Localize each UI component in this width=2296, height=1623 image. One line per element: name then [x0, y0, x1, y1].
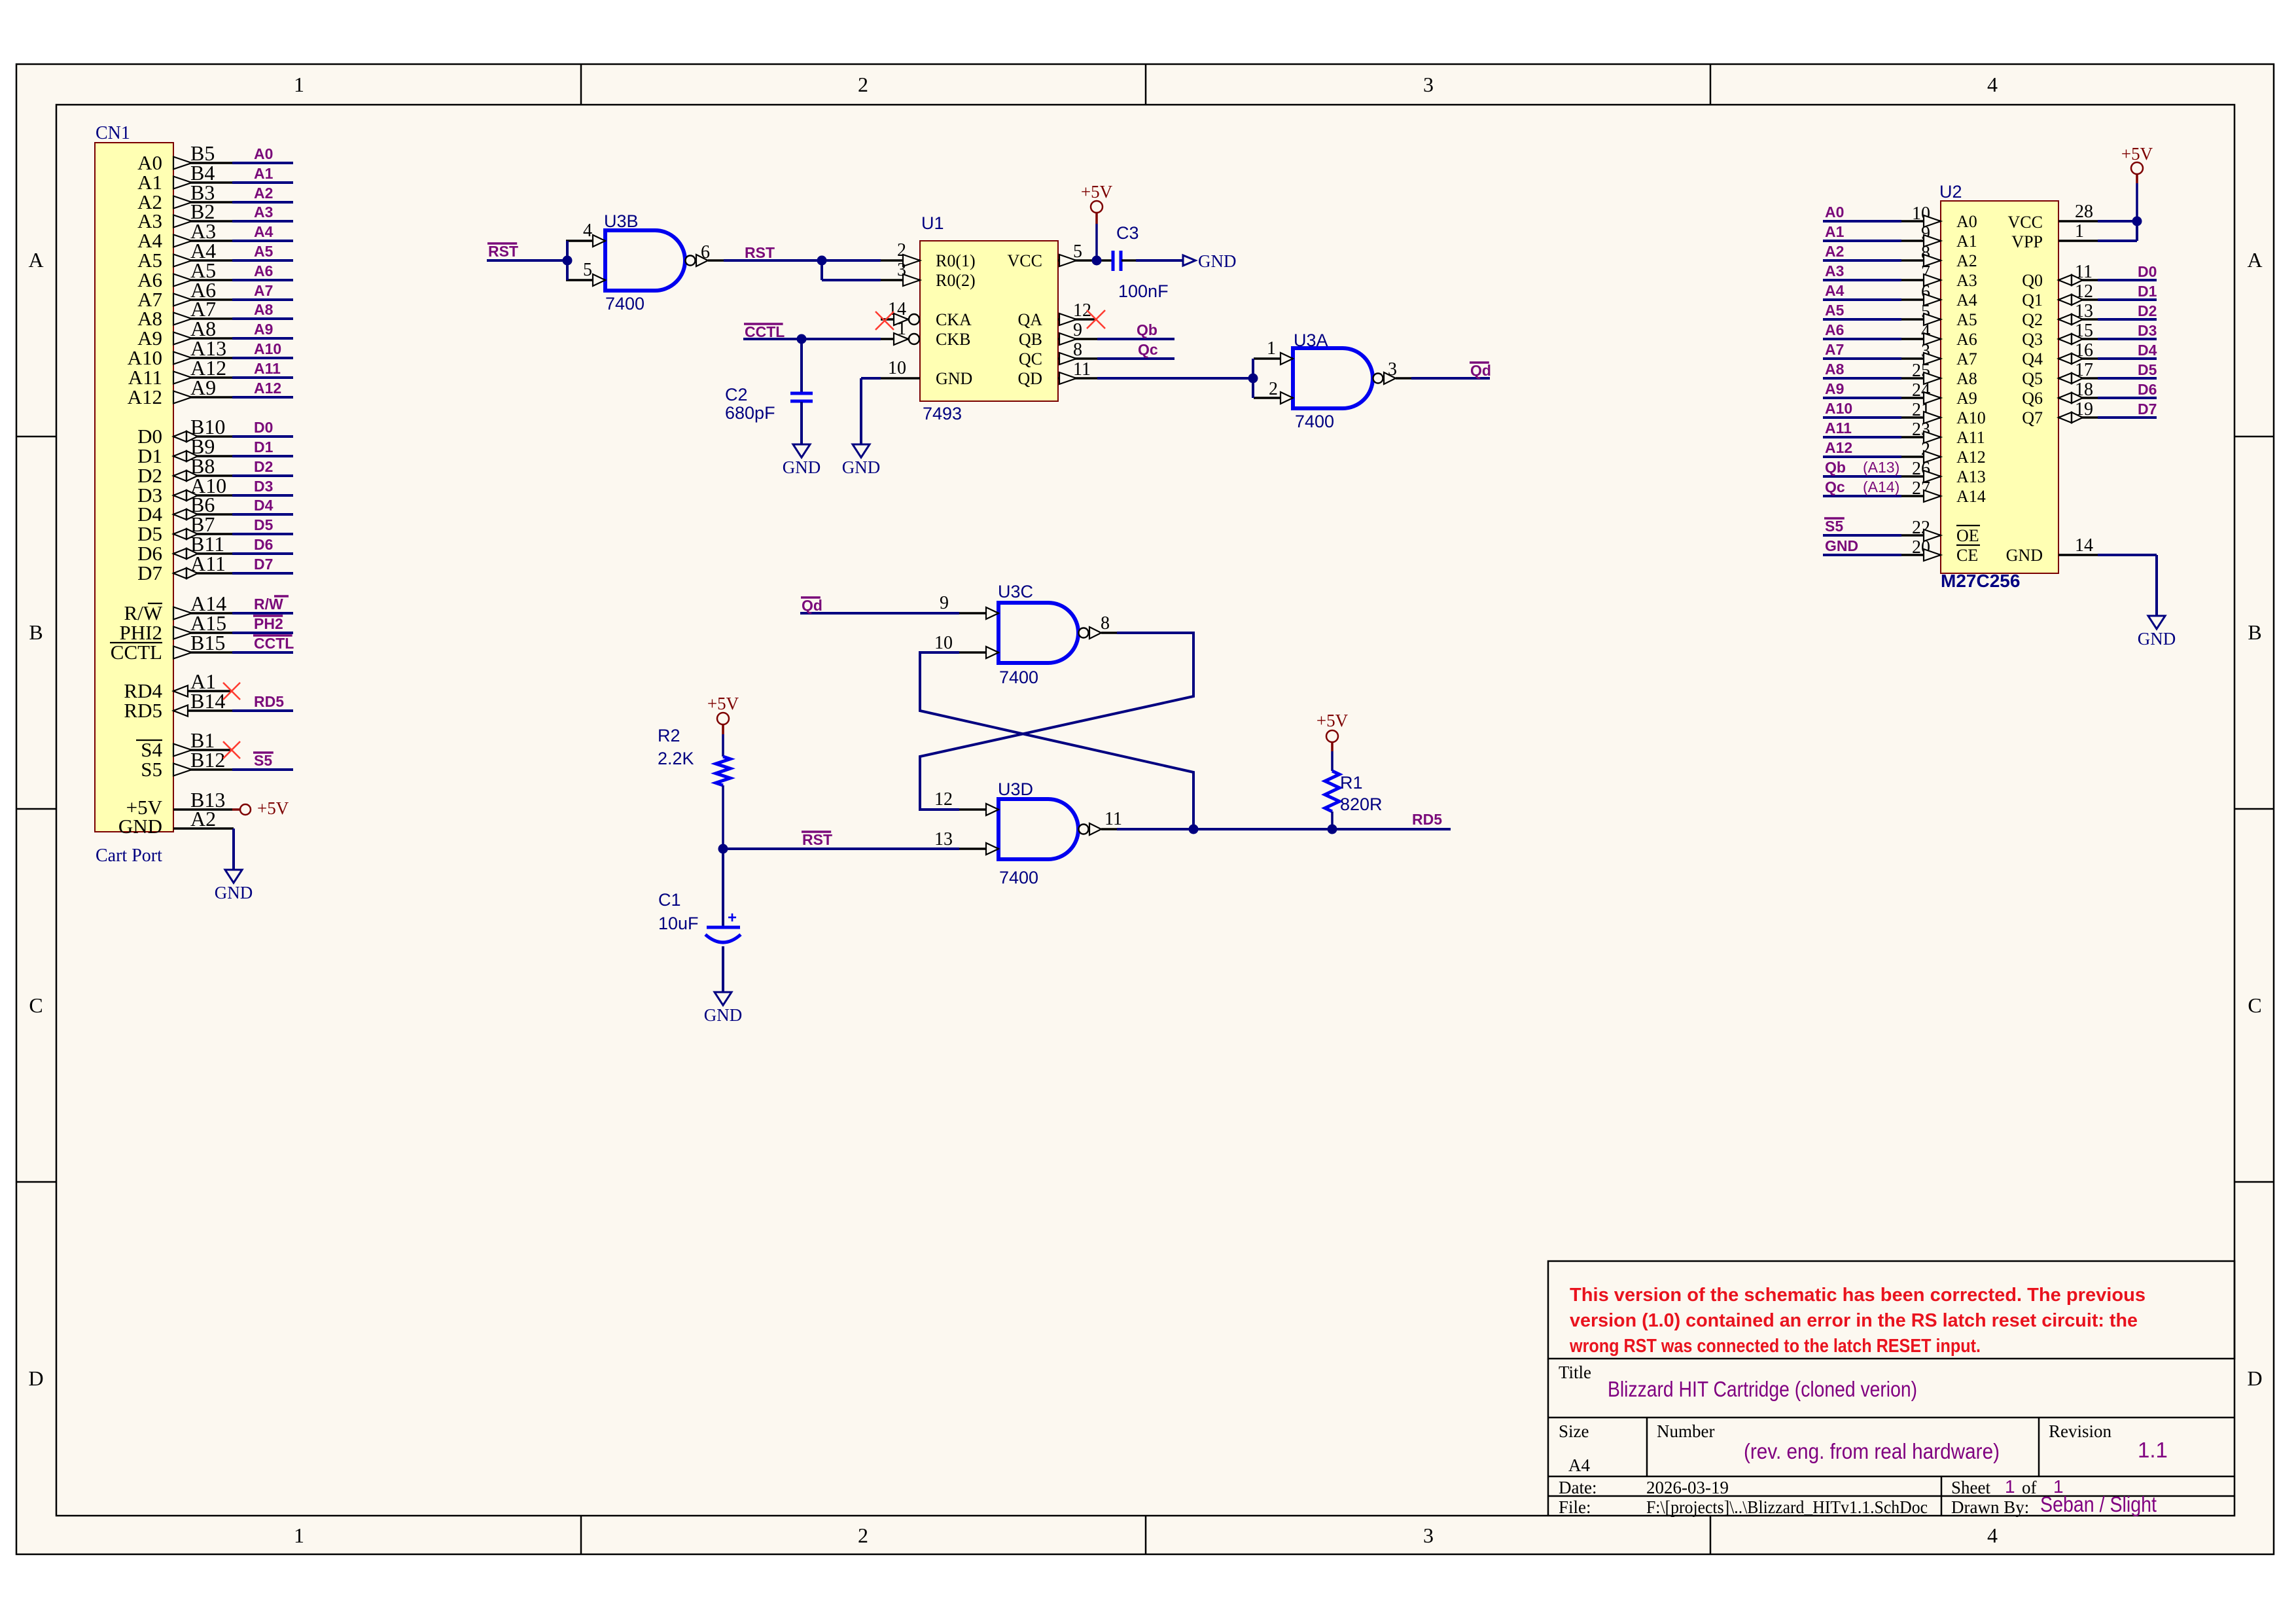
svg-text:680pF: 680pF: [725, 403, 775, 423]
svg-text:GND: GND: [704, 1005, 743, 1025]
svg-text:A5: A5: [1956, 310, 1977, 329]
svg-text:A12: A12: [1956, 448, 1986, 467]
svg-text:CKB: CKB: [936, 330, 970, 349]
svg-text:GND: GND: [215, 883, 253, 902]
svg-text:4: 4: [1987, 73, 1998, 96]
svg-text:D3: D3: [254, 478, 273, 495]
svg-text:CCTL: CCTL: [254, 635, 294, 652]
svg-text:820R: 820R: [1340, 794, 1383, 814]
svg-text:D2: D2: [2138, 302, 2157, 319]
svg-text:1: 1: [1267, 338, 1276, 359]
svg-text:CKA: CKA: [936, 310, 972, 329]
svg-text:C2: C2: [725, 385, 748, 404]
svg-text:B15: B15: [190, 631, 225, 654]
svg-text:100nF: 100nF: [1118, 281, 1169, 301]
svg-text:A4: A4: [1568, 1455, 1590, 1475]
svg-text:Q3: Q3: [2022, 330, 2043, 349]
svg-text:A9: A9: [254, 321, 273, 338]
svg-text:RD5: RD5: [1412, 811, 1442, 828]
svg-text:4: 4: [1987, 1524, 1998, 1547]
svg-text:QC: QC: [1019, 349, 1042, 368]
svg-text:RD5: RD5: [254, 693, 284, 710]
svg-text:R0(2): R0(2): [936, 271, 976, 290]
svg-text:D6: D6: [2138, 381, 2157, 398]
svg-text:RD5: RD5: [124, 699, 162, 722]
svg-text:U3B: U3B: [604, 211, 639, 231]
svg-text:A6: A6: [254, 262, 273, 279]
svg-text:File:: File:: [1559, 1497, 1591, 1517]
svg-text:+5V: +5V: [2121, 144, 2153, 164]
svg-text:VPP: VPP: [2011, 232, 2043, 251]
svg-text:GND: GND: [118, 815, 162, 838]
svg-text:CCTL: CCTL: [745, 323, 785, 340]
svg-text:6: 6: [701, 242, 710, 262]
svg-text:A11: A11: [254, 360, 281, 377]
svg-text:Q7: Q7: [2022, 408, 2043, 427]
svg-text:2: 2: [858, 73, 868, 96]
svg-text:A7: A7: [254, 282, 273, 299]
svg-text:QD: QD: [1017, 369, 1042, 388]
svg-text:Q0: Q0: [2022, 271, 2043, 290]
svg-text:A5: A5: [254, 243, 274, 260]
svg-text:8: 8: [1101, 613, 1110, 633]
svg-text:M27C256: M27C256: [1941, 571, 2020, 591]
svg-text:10: 10: [934, 633, 953, 653]
svg-text:RST: RST: [802, 831, 832, 848]
svg-text:A10: A10: [254, 340, 281, 357]
svg-text:R2: R2: [658, 726, 680, 745]
svg-text:A2: A2: [190, 807, 216, 830]
svg-text:D1: D1: [254, 438, 274, 455]
svg-text:A0: A0: [254, 145, 273, 162]
svg-text:Sheet: Sheet: [1951, 1478, 1990, 1497]
svg-text:A3: A3: [1825, 262, 1844, 279]
svg-text:Revision: Revision: [2049, 1421, 2112, 1441]
svg-text:CCTL: CCTL: [111, 641, 162, 664]
svg-text:5: 5: [583, 260, 592, 280]
svg-text:GND: GND: [2138, 629, 2176, 649]
svg-text:Date:: Date:: [1559, 1478, 1597, 1497]
svg-text:8: 8: [1073, 340, 1082, 360]
svg-text:Number: Number: [1657, 1421, 1714, 1441]
svg-text:D: D: [2247, 1366, 2262, 1390]
svg-text:GND: GND: [936, 369, 972, 388]
svg-text:A4: A4: [254, 223, 274, 240]
svg-text:3: 3: [1423, 73, 1434, 96]
svg-text:A9: A9: [190, 376, 216, 399]
svg-text:13: 13: [934, 829, 953, 849]
svg-text:7400: 7400: [999, 668, 1038, 687]
svg-text:3: 3: [1423, 1524, 1434, 1547]
svg-text:A4: A4: [1825, 282, 1845, 299]
svg-text:Qd: Qd: [1470, 362, 1491, 379]
svg-text:Qb: Qb: [1825, 459, 1846, 476]
svg-text:10uF: 10uF: [658, 914, 699, 933]
svg-text:A12: A12: [254, 380, 281, 397]
svg-text:Q2: Q2: [2022, 310, 2043, 329]
svg-text:C: C: [2248, 993, 2261, 1017]
svg-text:C: C: [29, 993, 43, 1017]
svg-text:1: 1: [294, 1524, 304, 1547]
svg-text:A6: A6: [1825, 321, 1844, 338]
svg-text:Drawn By:: Drawn By:: [1951, 1497, 2029, 1517]
svg-text:+5V: +5V: [257, 798, 289, 818]
svg-text:+: +: [728, 909, 737, 927]
svg-text:7400: 7400: [1295, 412, 1334, 431]
svg-text:11: 11: [1104, 809, 1122, 829]
svg-text:VCC: VCC: [2008, 213, 2043, 232]
svg-text:A11: A11: [1825, 419, 1852, 437]
svg-text:9: 9: [1073, 320, 1082, 340]
svg-text:of: of: [2022, 1478, 2037, 1497]
svg-text:GND: GND: [842, 457, 881, 477]
svg-text:D4: D4: [254, 497, 274, 514]
svg-text:A1: A1: [1956, 232, 1977, 251]
svg-text:Qc: Qc: [1138, 341, 1158, 358]
svg-text:Title: Title: [1559, 1363, 1591, 1382]
svg-text:5: 5: [1073, 241, 1082, 262]
svg-text:A1: A1: [254, 165, 274, 182]
svg-text:7493: 7493: [923, 404, 962, 423]
svg-text:A12: A12: [1825, 439, 1852, 456]
svg-text:A3: A3: [254, 204, 273, 221]
svg-text:D: D: [28, 1366, 43, 1390]
svg-text:OE: OE: [1956, 526, 1979, 545]
svg-text:GND: GND: [1198, 251, 1237, 271]
svg-text:C1: C1: [658, 890, 681, 910]
svg-text:D7: D7: [2138, 401, 2157, 418]
svg-text:F:\[projects]\..\Blizzard_HITv: F:\[projects]\..\Blizzard_HITv1.1.SchDoc: [1646, 1497, 1928, 1517]
svg-text:4: 4: [583, 221, 592, 241]
svg-text:A13: A13: [1956, 467, 1986, 486]
svg-text:B: B: [2248, 620, 2261, 644]
svg-text:A14: A14: [1956, 487, 1986, 506]
svg-text:U2: U2: [1939, 182, 1962, 202]
svg-text:PH2: PH2: [254, 615, 283, 632]
svg-text:14: 14: [2075, 535, 2093, 556]
svg-text:7400: 7400: [999, 868, 1038, 887]
svg-text:QB: QB: [1019, 330, 1042, 349]
svg-text:11: 11: [1073, 359, 1091, 380]
svg-text:+5V: +5V: [707, 694, 739, 713]
svg-text:S5: S5: [1825, 518, 1843, 535]
svg-text:CN1: CN1: [96, 123, 130, 143]
svg-text:A12: A12: [128, 385, 162, 408]
svg-text:QA: QA: [1017, 310, 1042, 329]
svg-text:U3A: U3A: [1294, 330, 1328, 350]
svg-text:Qd: Qd: [802, 597, 822, 614]
svg-text:(A14): (A14): [1863, 478, 1899, 495]
svg-text:D5: D5: [2138, 361, 2157, 378]
svg-text:2026-03-19: 2026-03-19: [1646, 1478, 1729, 1497]
svg-text:Q5: Q5: [2022, 369, 2043, 388]
svg-text:D1: D1: [2138, 283, 2157, 300]
svg-text:GND: GND: [783, 457, 821, 477]
svg-text:Qc: Qc: [1825, 478, 1845, 495]
svg-text:A6: A6: [1956, 330, 1977, 349]
svg-text:CE: CE: [1956, 546, 1978, 565]
svg-text:A2: A2: [254, 185, 273, 202]
svg-text:+5V: +5V: [1316, 711, 1349, 730]
svg-text:D0: D0: [2138, 263, 2157, 280]
svg-text:28: 28: [2075, 202, 2093, 222]
svg-text:B14: B14: [190, 689, 225, 713]
svg-text:D2: D2: [254, 458, 273, 475]
svg-text:A4: A4: [1956, 291, 1977, 310]
svg-text:S5: S5: [254, 752, 272, 769]
svg-text:7400: 7400: [605, 294, 645, 313]
svg-text:RST: RST: [745, 244, 775, 261]
svg-text:Qb: Qb: [1137, 321, 1157, 338]
svg-text:D6: D6: [254, 536, 273, 553]
svg-text:A8: A8: [1956, 369, 1977, 388]
svg-text:A: A: [28, 248, 43, 272]
svg-text:D0: D0: [254, 419, 273, 436]
svg-text:C3: C3: [1116, 223, 1139, 243]
svg-text:This version of the schematic: This version of the schematic has been c…: [1570, 1285, 2146, 1306]
svg-text:GND: GND: [1825, 537, 1858, 554]
svg-text:Q4: Q4: [2022, 349, 2043, 368]
svg-text:RST: RST: [488, 243, 518, 260]
svg-text:(rev. eng. from real hardware): (rev. eng. from real hardware): [1744, 1439, 2000, 1463]
svg-text:1: 1: [2075, 221, 2084, 241]
svg-text:A7: A7: [1956, 349, 1977, 368]
svg-text:1: 1: [2005, 1476, 2015, 1497]
svg-text:1.1: 1.1: [2138, 1438, 2168, 1462]
svg-text:Blizzard HIT Cartridge (cloned: Blizzard HIT Cartridge (cloned verion): [1608, 1377, 1917, 1401]
svg-text:A5: A5: [1825, 302, 1845, 319]
svg-text:10: 10: [888, 358, 906, 378]
svg-text:U3D: U3D: [998, 779, 1033, 799]
svg-text:+5V: +5V: [1081, 182, 1113, 202]
svg-text:(A13): (A13): [1863, 459, 1899, 476]
svg-text:A: A: [2247, 248, 2262, 272]
svg-text:A10: A10: [1825, 400, 1852, 417]
svg-text:D3: D3: [2138, 322, 2157, 339]
svg-text:A8: A8: [254, 301, 274, 318]
svg-text:D4: D4: [2138, 342, 2157, 359]
svg-text:S5: S5: [141, 758, 162, 781]
svg-text:B: B: [29, 620, 43, 644]
svg-text:version (1.0) contained an err: version (1.0) contained an error in the …: [1570, 1310, 2138, 1331]
svg-text:A2: A2: [1825, 243, 1844, 260]
svg-text:2: 2: [858, 1524, 868, 1547]
svg-text:1: 1: [294, 73, 304, 96]
svg-text:A3: A3: [1956, 271, 1977, 290]
svg-text:9: 9: [940, 593, 949, 613]
svg-text:A9: A9: [1956, 389, 1977, 408]
svg-text:12: 12: [1073, 300, 1091, 321]
svg-text:A7: A7: [1825, 341, 1844, 358]
svg-text:GND: GND: [2006, 546, 2043, 565]
svg-text:A0: A0: [1956, 212, 1977, 231]
svg-text:VCC: VCC: [1008, 251, 1042, 270]
svg-text:D5: D5: [254, 516, 274, 533]
svg-text:D7: D7: [254, 556, 273, 573]
svg-text:Q1: Q1: [2022, 291, 2043, 310]
svg-text:A11: A11: [1956, 428, 1985, 447]
svg-text:A2: A2: [1956, 251, 1977, 270]
svg-text:12: 12: [934, 789, 953, 810]
svg-text:R1: R1: [1340, 773, 1363, 793]
svg-text:Size: Size: [1559, 1421, 1589, 1441]
svg-text:R0(1): R0(1): [936, 251, 976, 270]
svg-text:Cart Port: Cart Port: [96, 846, 162, 866]
svg-text:A9: A9: [1825, 380, 1844, 397]
svg-text:U3C: U3C: [998, 582, 1033, 601]
svg-text:U1: U1: [921, 213, 944, 233]
svg-text:A10: A10: [1956, 408, 1986, 427]
svg-text:2: 2: [1269, 379, 1278, 399]
svg-text:R/W: R/W: [254, 596, 283, 613]
svg-text:Q6: Q6: [2022, 389, 2043, 408]
svg-text:wrong RST was connected to the: wrong RST was connected to the latch RES…: [1569, 1336, 1981, 1357]
svg-text:B12: B12: [190, 748, 225, 772]
svg-text:3: 3: [1388, 359, 1397, 380]
svg-text:A1: A1: [1825, 223, 1845, 240]
svg-text:D7: D7: [137, 562, 162, 584]
svg-text:2.2K: 2.2K: [658, 749, 694, 768]
svg-text:A0: A0: [1825, 204, 1844, 221]
svg-text:Seban / Slight: Seban / Slight: [2040, 1492, 2157, 1516]
svg-text:A8: A8: [1825, 361, 1845, 378]
